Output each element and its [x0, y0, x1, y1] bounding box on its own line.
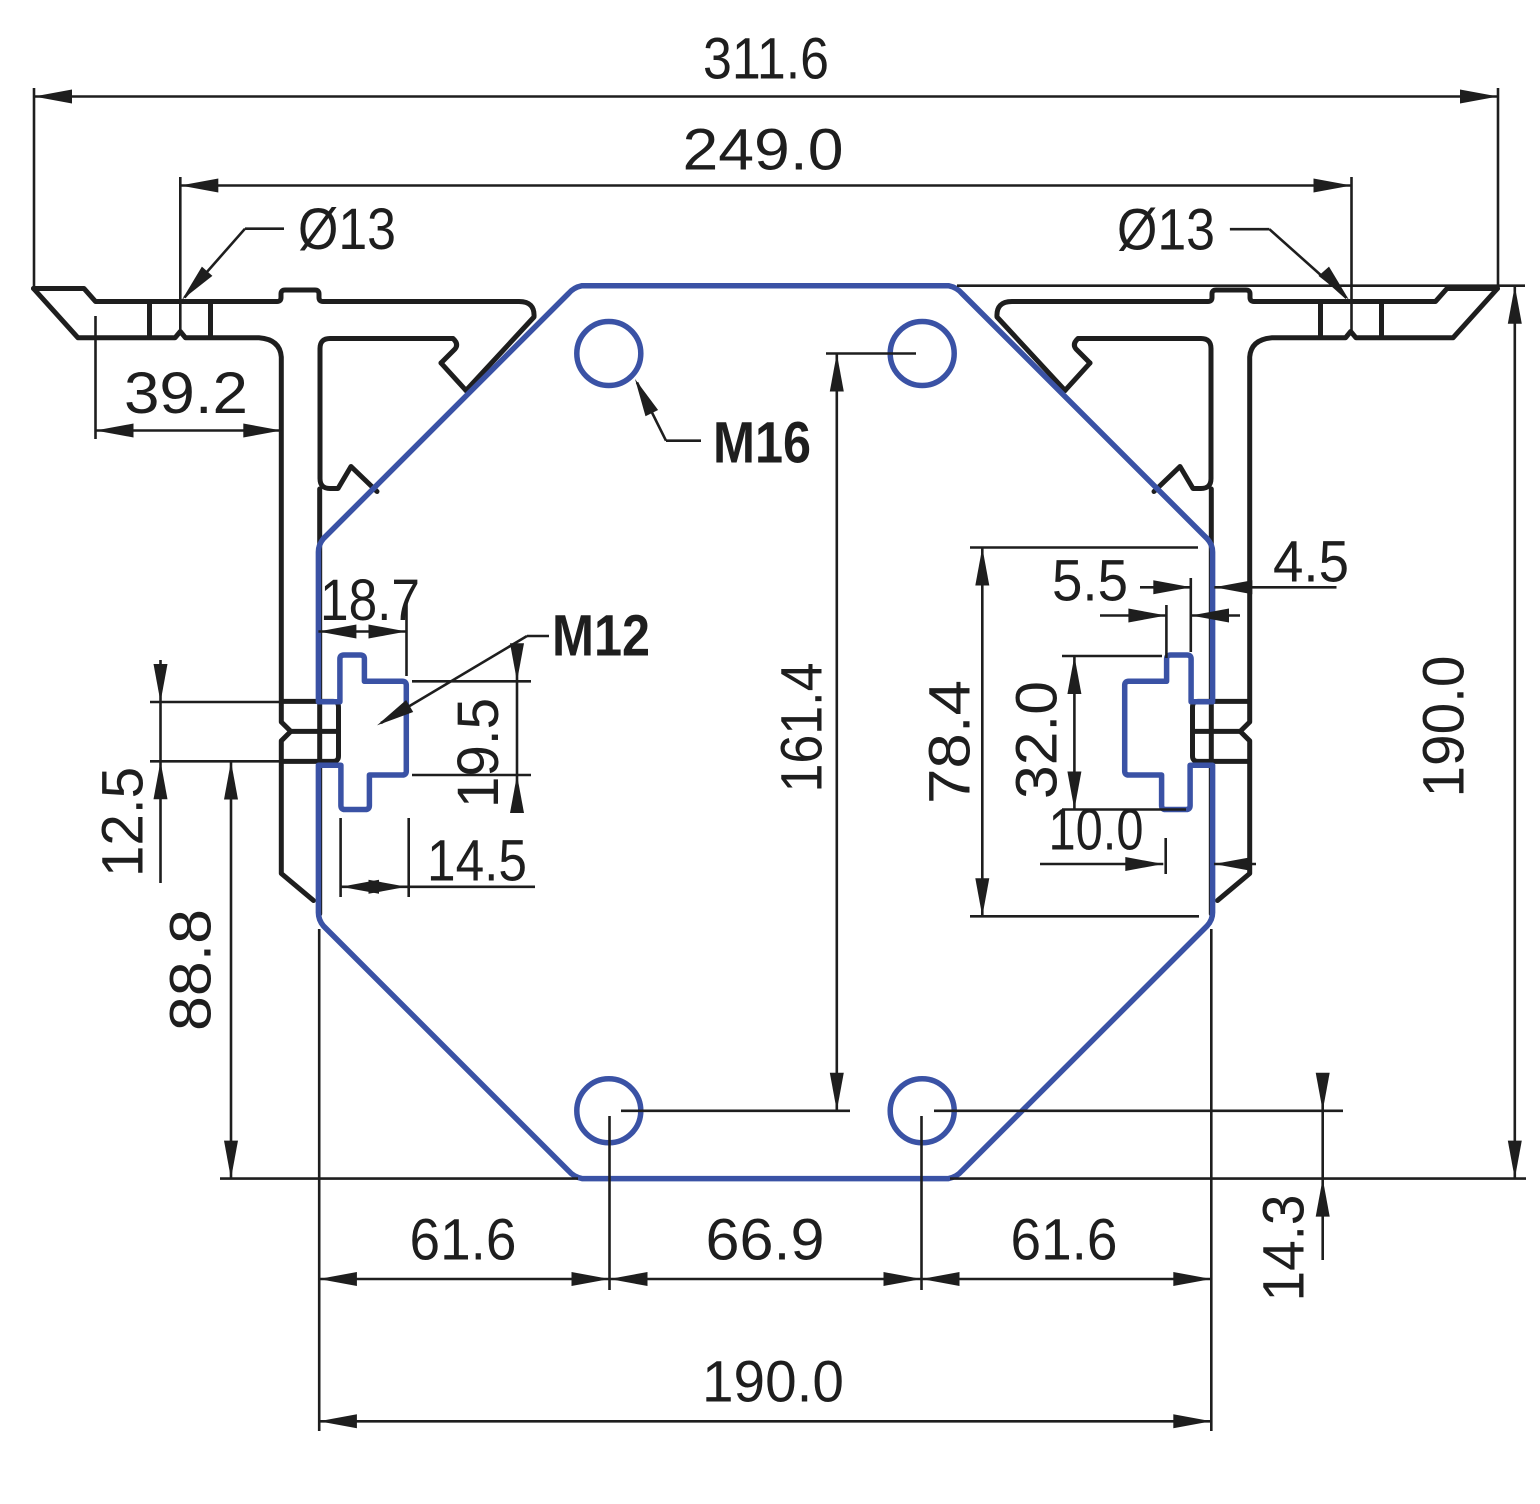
svg-text:4.5: 4.5 [1273, 530, 1349, 595]
svg-text:88.8: 88.8 [159, 909, 224, 1031]
dimension 161.4 hole vertical spacing [826, 352, 916, 355]
dimension 190.0 right overall height [957, 284, 1525, 287]
svg-text:Ø13: Ø13 [1117, 198, 1215, 263]
dimension 88.8 [230, 762, 233, 1179]
dimension 12.5 [150, 701, 282, 704]
aluminium profile cross-section (black), right half (mirrored) [997, 289, 1498, 915]
leg inner edge (left) (mirrored right) [1209, 489, 1214, 914]
hole Ø13 right wall line (mirrored right) [1318, 304, 1323, 336]
plate hole M16 top-left [577, 322, 641, 386]
dimension 190.0 bottom [319, 1420, 1211, 1423]
svg-text:M12: M12 [552, 604, 650, 669]
label Ø13 left with leader [245, 227, 284, 230]
gusset notch leg [441, 363, 466, 391]
dimension 19.5 [412, 680, 531, 683]
svg-text:311.6: 311.6 [703, 27, 829, 92]
svg-text:18.7: 18.7 [320, 568, 420, 633]
dimension 249.0 hole spacing [179, 177, 182, 330]
gusset cavity (left) (mirrored right) [1074, 339, 1211, 492]
svg-text:190.0: 190.0 [702, 1350, 844, 1415]
dimension 5.5 [1165, 605, 1168, 658]
svg-text:190.0: 190.0 [1412, 656, 1477, 798]
hole Ø13 left wall lines [147, 304, 152, 336]
svg-text:14.3: 14.3 [1252, 1195, 1317, 1302]
gusset notch leg (mirrored right) [1065, 363, 1090, 391]
svg-text:5.5: 5.5 [1052, 549, 1128, 614]
dimension 61.6 left [319, 1278, 1211, 1281]
label M16 with leader [666, 439, 701, 442]
dimension 32.0 key height [1062, 655, 1162, 658]
svg-text:161.4: 161.4 [770, 663, 835, 793]
profile top plate face (left) (mirrored right) [997, 289, 1498, 391]
svg-text:M16: M16 [713, 411, 811, 476]
leg inner edge (left) [317, 489, 322, 914]
profile left end and leg outer edge (mirrored right) [1218, 289, 1498, 901]
label Ø13 right with leader [1230, 228, 1270, 231]
dimension 14.3 [934, 1110, 1343, 1113]
svg-text:Ø13: Ø13 [298, 197, 396, 262]
bottom extension lines [318, 929, 321, 1431]
hole Ø13 right wall line [208, 304, 213, 336]
svg-text:12.5: 12.5 [91, 767, 156, 877]
clamp slot middle line (mirrored right) [1193, 729, 1241, 734]
svg-text:32.0: 32.0 [1005, 681, 1070, 799]
dimension 78.4 [970, 546, 1198, 549]
blue mounting plate outline (octagon with T-slot keys) [318, 286, 1212, 1179]
svg-text:78.4: 78.4 [918, 680, 983, 804]
dimension 10.0 [1164, 838, 1167, 874]
clamp slot (left) (mirrored right) [1193, 701, 1250, 761]
dimension 61.6 right [922, 1272, 960, 1286]
plate hole bottom-left [577, 1079, 641, 1143]
gusset cavity (left) [320, 339, 457, 492]
svg-text:10.0: 10.0 [1049, 798, 1144, 863]
profile top plate face (left) [34, 289, 535, 391]
svg-text:14.5: 14.5 [427, 829, 527, 894]
dimension 39.2 [94, 316, 97, 439]
clamp slot middle line [291, 729, 339, 734]
dimension 4.5 [1140, 586, 1191, 589]
clamp slot (left) [282, 701, 339, 761]
plate hole bottom-right [890, 1079, 954, 1143]
hole Ø13 left wall lines (mirrored right) [1379, 304, 1384, 336]
dimension 311.6 overall width [33, 88, 36, 287]
svg-text:39.2: 39.2 [124, 361, 248, 426]
svg-text:61.6: 61.6 [1011, 1208, 1118, 1273]
svg-text:19.5: 19.5 [446, 698, 511, 808]
plate hole M16 top-right [890, 322, 954, 386]
svg-text:61.6: 61.6 [410, 1208, 517, 1273]
profile left end and leg outer edge [34, 289, 314, 901]
label M12 with leader [527, 635, 549, 638]
dimension 66.9 [610, 1272, 648, 1286]
dimension 18.7 [405, 603, 408, 676]
aluminium profile cross-section (black), left half [34, 289, 535, 915]
svg-text:249.0: 249.0 [683, 118, 844, 183]
svg-text:66.9: 66.9 [706, 1208, 825, 1273]
dimension 14.5 [339, 818, 342, 897]
